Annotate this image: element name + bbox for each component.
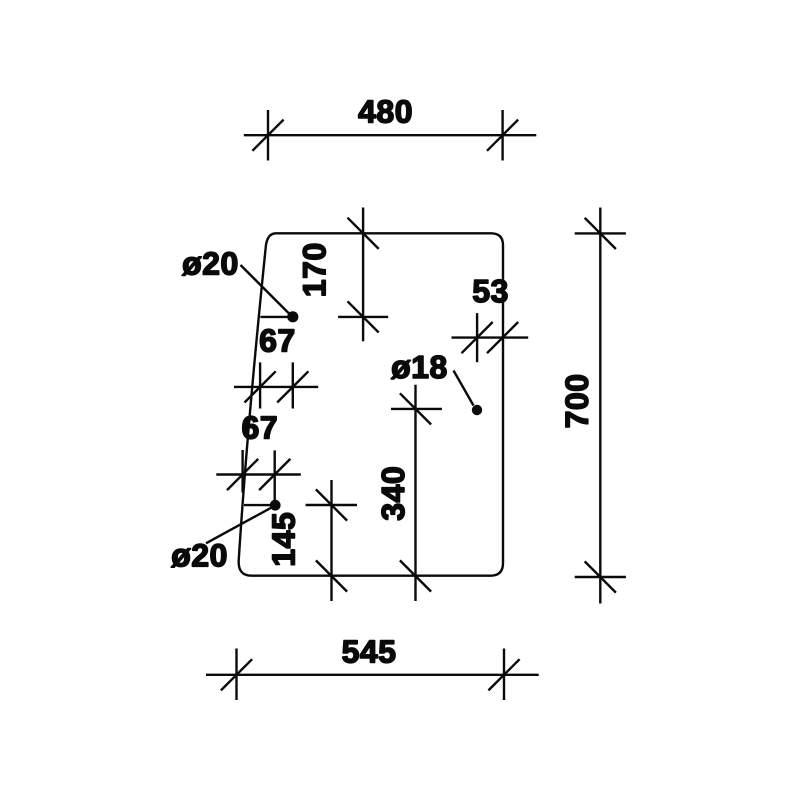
dimension 700 top bar xyxy=(575,232,626,234)
hole A leader line xyxy=(241,265,291,315)
dimension 340 top bar xyxy=(391,408,442,410)
hole A connector line xyxy=(260,316,291,318)
hole C connector line xyxy=(244,504,275,506)
label 145 xyxy=(273,513,295,565)
dimension 67 upper left extension xyxy=(259,362,261,408)
label 67 lower xyxy=(243,416,277,439)
hole B leader line xyxy=(454,371,474,406)
dimension 53 left slash xyxy=(462,322,493,353)
hole B dot xyxy=(472,405,482,415)
dimension 545 line xyxy=(206,674,539,676)
label 170 xyxy=(303,244,326,295)
dimension 545 right extension xyxy=(503,649,505,701)
dimension 340 line xyxy=(414,385,416,601)
dimension 145 line xyxy=(330,480,332,601)
dimension 67 lower right extension xyxy=(274,450,276,505)
dimension 67 lower left extension xyxy=(241,450,243,493)
dimension 700 bottom bar xyxy=(575,576,626,578)
hole C dot xyxy=(270,500,281,511)
dimension 145 bottom slash xyxy=(316,560,347,591)
dimension 170 bottom bar xyxy=(338,316,388,318)
label diameter 18 xyxy=(391,356,446,379)
label 545 xyxy=(343,641,396,663)
dimension 480 right extension xyxy=(501,110,503,161)
dimension 145 top slash xyxy=(316,489,347,520)
dimension 545 left extension xyxy=(235,649,237,701)
dimension 480 left slash xyxy=(252,120,283,151)
dimension 170 line xyxy=(362,208,364,342)
dimension 53 left extension xyxy=(476,313,478,362)
dimension 145 top bar xyxy=(306,504,357,506)
label 480 xyxy=(359,100,412,123)
panel outline xyxy=(239,233,503,575)
dimension 545 left slash xyxy=(221,659,252,690)
dimension 170 top slash xyxy=(348,218,379,249)
dimension 545 right slash xyxy=(488,659,519,690)
dimension 480 line xyxy=(244,134,537,136)
dimension 67 lower left slash xyxy=(227,459,258,490)
label 67 upper xyxy=(260,329,294,352)
dimension 480 left extension xyxy=(267,110,269,161)
dimension 67 upper line xyxy=(234,386,318,388)
dimension 67 lower line xyxy=(216,473,300,475)
dimension 340 top slash xyxy=(400,393,431,424)
label 700 xyxy=(566,375,589,427)
dimension 67 lower right slash xyxy=(259,459,290,490)
dimension 53 line xyxy=(452,336,529,338)
dimension 700 line xyxy=(599,208,601,604)
dimension 67 upper right extension xyxy=(292,362,294,408)
dimension 53 right slash xyxy=(487,322,518,353)
label diameter 20 upper xyxy=(182,252,237,275)
label diameter 20 lower xyxy=(171,544,226,567)
label 340 xyxy=(382,468,405,520)
dimension 170 bottom slash xyxy=(348,301,379,332)
dimension 700 top slash xyxy=(585,218,616,249)
hole A dot xyxy=(287,311,298,322)
dimension 67 upper left slash xyxy=(245,371,276,402)
label 53 xyxy=(473,280,507,303)
dimension 67 upper right slash xyxy=(277,371,308,402)
dimension 480 right slash xyxy=(487,120,518,151)
hole C leader line xyxy=(206,507,273,543)
dimension 700 bottom slash xyxy=(585,561,616,592)
dimension 340 bottom slash xyxy=(400,560,431,591)
